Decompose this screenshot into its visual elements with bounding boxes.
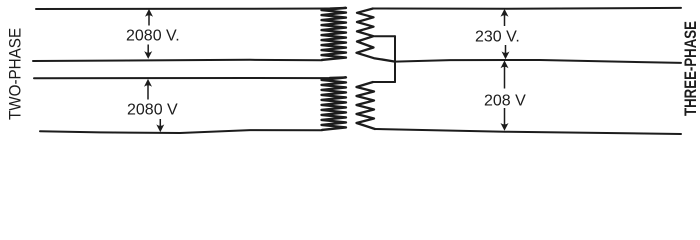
arrow down: 230 V. to three-phase line 2 — [505, 45, 507, 53]
svg-text:2080 V: 2080 V — [127, 101, 178, 118]
svg-text:230 V.: 230 V. — [475, 29, 520, 46]
wire: three-phase line 1 — [373, 7, 681, 10]
svg-text:TWO-PHASE: TWO-PHASE — [6, 28, 25, 120]
wire: three-phase line 2 — [395, 60, 681, 63]
winding P2 (primary, phase B) — [322, 77, 347, 129]
arrow down: 2080 V. to line A bottom — [147, 45, 149, 55]
wire: two-phase line B bottom — [40, 130, 322, 133]
wire: two-phase line B top — [34, 77, 330, 79]
arrow up: 2080 V. to line A top — [148, 13, 150, 26]
wire: tap vertical drop — [394, 36, 396, 82]
arrow down: 208 V to three-phase line 3 — [504, 108, 506, 125]
wire: two-phase line A top — [36, 8, 330, 11]
arrow up: 2080 V to line B top — [147, 84, 149, 100]
winding S2 (secondary, main) — [357, 82, 376, 129]
arrow down: 2080 V to line B bottom — [159, 119, 161, 127]
wire: tap to S2 top — [373, 81, 395, 83]
svg-text:208 V: 208 V — [484, 92, 526, 109]
arrow up: 208 V to three-phase line 2 — [504, 66, 506, 89]
wire: three-phase line 3 — [375, 129, 681, 134]
arrow up: 230 V. to three-phase line 1 — [504, 14, 506, 27]
svg-text:2080 V.: 2080 V. — [126, 28, 180, 45]
wire: two-phase line A bottom — [33, 60, 322, 61]
winding S1 (secondary, teaser) — [357, 9, 396, 62]
winding P1 (primary, phase A) — [322, 8, 347, 60]
svg-text:THREE-PHASE: THREE-PHASE — [682, 21, 700, 116]
wire: tap from S1 — [375, 35, 396, 37]
